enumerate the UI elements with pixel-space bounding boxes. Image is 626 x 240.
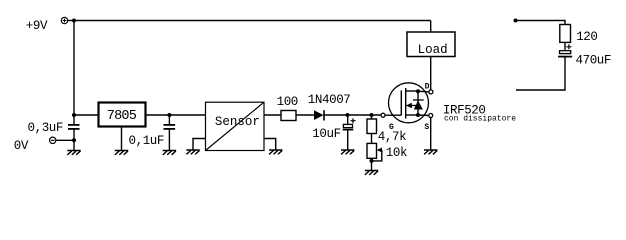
ground GND6: [341, 150, 354, 154]
wire 0V terminal to junction: [56, 139, 74, 141]
node 0V terminal: [50, 137, 56, 143]
svg-text:con dissipatore: con dissipatore: [444, 115, 516, 124]
capacitor C2 0,1uF: [164, 125, 176, 129]
wire sensor right gnd stub: [264, 139, 276, 151]
svg-text:7805: 7805: [107, 109, 137, 124]
node A junction: [72, 19, 76, 23]
regulator U1 7805: [99, 103, 146, 127]
svg-text:S: S: [424, 123, 429, 132]
load RL: [407, 32, 455, 57]
svg-text:D: D: [425, 82, 430, 91]
wire sensor left gnd stub: [193, 139, 206, 151]
wire 7805 gnd pin: [121, 128, 123, 151]
wire left vertical: [73, 21, 75, 125]
capacitor C4 470uF: [558, 44, 572, 56]
wire sensor output: [264, 114, 281, 116]
ground GND2: [115, 151, 128, 155]
wire source to ground: [430, 118, 432, 151]
ground GND1: [67, 151, 80, 155]
pin S terminal circle: [429, 114, 433, 118]
svg-text:470uF: 470uF: [576, 54, 612, 68]
svg-text:100: 100: [277, 95, 298, 109]
svg-text:G: G: [389, 123, 394, 132]
resistor R4 120: [560, 25, 571, 43]
svg-text:0,1uF: 0,1uF: [129, 134, 165, 148]
sensor module U2: [206, 102, 265, 150]
pin D terminal circle: [429, 90, 433, 94]
node C junction 0,1uF: [167, 113, 171, 117]
svg-text:120: 120: [576, 30, 597, 44]
pin G terminal circle: [381, 113, 385, 117]
node G snubber top: [514, 19, 518, 23]
wire terminal to node: [68, 20, 74, 22]
wire below C1: [73, 129, 75, 151]
node E junction 4,7k: [370, 113, 374, 117]
wire load to drain: [430, 57, 432, 90]
wire down to C2: [168, 115, 170, 124]
wire snubber top: [516, 21, 566, 25]
capacitor C1 0,3uF: [68, 125, 80, 129]
resistor R1 100: [281, 111, 296, 121]
wire top rail: [74, 20, 431, 22]
wire gate into mosfet: [385, 114, 401, 116]
ground GND7: [365, 171, 378, 175]
svg-text:Sensor: Sensor: [215, 115, 260, 129]
ground GND5: [269, 150, 282, 154]
wire below C2: [168, 129, 170, 151]
node F junction pot wiper: [370, 159, 374, 163]
capacitor C3 10uF: [343, 115, 356, 150]
svg-text:1N4007: 1N4007: [308, 93, 351, 107]
wire snubber bottom: [516, 57, 565, 90]
node D junction 10uF: [346, 113, 350, 117]
svg-text:+9V: +9V: [26, 19, 48, 33]
diode D1 1N4007: [314, 110, 324, 120]
wire R4 to C4: [564, 42, 566, 50]
wire to 7805 input: [74, 114, 98, 116]
svg-text:10k: 10k: [386, 146, 407, 160]
node B junction 7805 input: [72, 113, 76, 117]
svg-text:Load: Load: [418, 43, 448, 57]
resistor R2 4,7k: [367, 115, 377, 143]
potentiometer R3 10k: [367, 143, 382, 170]
node +9V terminal: [61, 17, 67, 23]
ground GND4: [186, 150, 199, 154]
ground GND3: [163, 151, 176, 155]
wire rail down to load: [430, 21, 432, 33]
ground GND8: [424, 150, 437, 154]
svg-text:0,3uF: 0,3uF: [28, 121, 64, 135]
wire D1 to gate network: [324, 114, 381, 116]
svg-text:10uF: 10uF: [312, 127, 340, 141]
svg-text:0V: 0V: [14, 139, 29, 153]
transistor Q1 IRF520: [389, 83, 430, 123]
wire 7805 output: [147, 114, 206, 116]
node 0V junction: [72, 138, 76, 142]
wire R1 to D1: [296, 114, 314, 116]
